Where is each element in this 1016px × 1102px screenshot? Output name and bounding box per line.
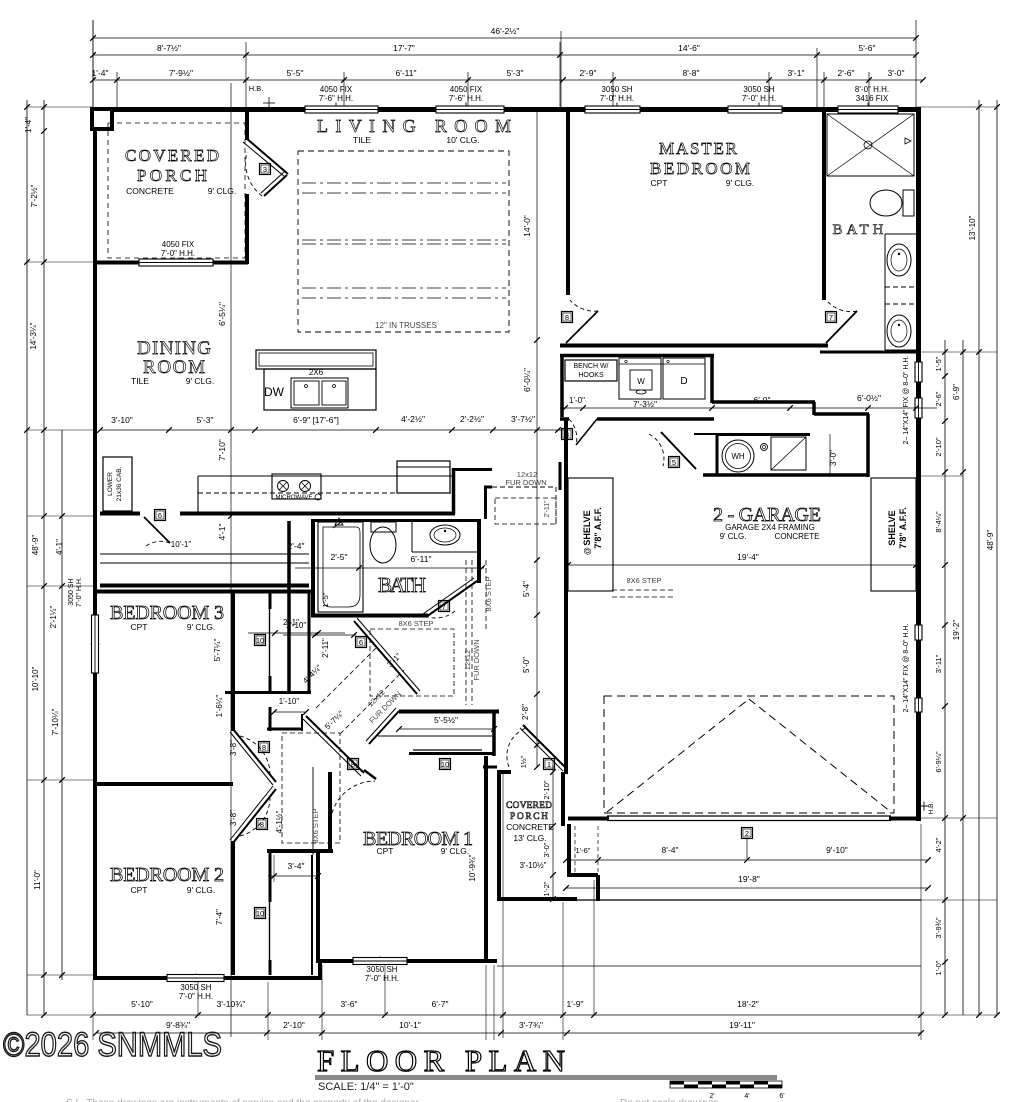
svg-text:3'-6": 3'-6" [341,999,358,1009]
svg-text:7'-0" H.H.: 7'-0" H.H. [365,974,399,983]
svg-text:4'-1": 4'-1" [55,539,64,555]
svg-text:H.B.: H.B. [249,84,264,93]
svg-text:1'-4": 1'-4" [24,117,33,133]
svg-text:21x36 CAB.: 21x36 CAB. [116,466,123,501]
svg-text:CONCRETE: CONCRETE [506,822,554,832]
svg-text:FUR DOWN: FUR DOWN [472,639,481,680]
svg-text:3'-0": 3'-0" [888,68,905,78]
svg-text:1'-9": 1'-9" [567,999,584,1009]
svg-text:14'-0": 14'-0" [522,215,532,237]
svg-text:5'-6": 5'-6" [859,43,876,53]
svg-text:2'-10": 2'-10" [542,780,551,799]
svg-text:8: 8 [565,430,569,439]
svg-text:18'-2": 18'-2" [737,999,759,1009]
svg-text:2'-5": 2'-5" [331,552,348,562]
svg-text:6'-11": 6'-11" [395,68,416,78]
svg-text:19'-11": 19'-11" [729,1020,755,1030]
svg-text:3'-4": 3'-4" [288,861,305,871]
svg-text:2: 2 [745,829,749,838]
svg-text:1'-5": 1'-5" [934,356,943,371]
svg-text:1'-6": 1'-6" [576,846,591,855]
svg-text:4050 FIX: 4050 FIX [450,85,483,94]
svg-text:BEDROOM 3: BEDROOM 3 [110,602,224,624]
svg-text:SHELVE: SHELVE [887,510,897,545]
svg-text:FLOOR PLAN: FLOOR PLAN [317,1043,565,1078]
svg-text:CPT: CPT [131,622,148,632]
svg-text:7'-10¼": 7'-10¼" [51,708,60,735]
svg-text:6: 6 [158,511,162,520]
svg-text:7: 7 [829,313,833,322]
svg-text:9' CLG.: 9' CLG. [208,186,237,196]
svg-text:6'-0½": 6'-0½" [857,393,881,403]
svg-text:8: 8 [260,820,264,829]
svg-text:12" IN TRUSSES: 12" IN TRUSSES [375,321,437,330]
svg-text:3416 FIX: 3416 FIX [856,94,889,103]
svg-text:46'-2½": 46'-2½" [491,26,520,36]
svg-text:8'-7½": 8'-7½" [157,43,181,53]
svg-text:WH: WH [731,452,745,461]
svg-text:3050 SH: 3050 SH [366,965,397,974]
svg-text:19'-8": 19'-8" [738,874,760,884]
svg-text:BEDROOM 2: BEDROOM 2 [110,864,224,886]
svg-text:TILE: TILE [353,135,371,145]
svg-text:10: 10 [256,909,264,918]
svg-text:8: 8 [565,313,569,322]
svg-text:4050 FIX: 4050 FIX [162,240,195,249]
svg-text:3'-11": 3'-11" [934,654,943,673]
svg-text:9' CLG.: 9' CLG. [726,178,755,188]
svg-text:10: 10 [256,636,264,645]
svg-text:@: @ [583,547,592,555]
svg-text:3050 SH: 3050 SH [601,85,632,94]
svg-text:5'-5½": 5'-5½" [434,715,458,725]
svg-text:7'8" A.F.F.: 7'8" A.F.F. [898,507,908,549]
svg-text:10: 10 [441,760,449,769]
svg-text:9' CLG.: 9' CLG. [186,376,215,386]
svg-text:5'-3": 5'-3" [197,415,214,425]
svg-text:LOWER: LOWER [107,472,114,496]
svg-text:FUR DOWN: FUR DOWN [505,478,546,487]
svg-text:ROOM: ROOM [143,357,205,378]
svg-text:3'-0": 3'-0" [542,842,551,857]
svg-text:4'-2": 4'-2" [934,837,943,852]
svg-text:CPT: CPT [377,846,394,856]
svg-text:1: 1 [547,760,551,769]
svg-text:6': 6' [779,1093,784,1100]
svg-text:10'-1": 10'-1" [399,1020,421,1030]
svg-text:3'-7½": 3'-7½" [511,414,535,424]
svg-text:8: 8 [351,760,355,769]
svg-text:13'-10": 13'-10" [968,215,977,240]
svg-text:6'-9": 6'-9" [952,384,961,400]
svg-text:5'-3": 5'-3" [507,68,524,78]
svg-text:4050 FIX: 4050 FIX [320,85,353,94]
svg-text:CONCRETE: CONCRETE [775,532,820,541]
svg-text:3'-10½": 3'-10½" [519,861,546,870]
svg-text:1½": 1½" [520,755,528,768]
svg-text:DINING: DINING [137,338,211,359]
svg-text:14'-3¼": 14'-3¼" [29,322,38,349]
svg-text:6'-9¼": 6'-9¼" [934,751,943,773]
svg-text:6'-5¼": 6'-5¼" [217,302,227,326]
svg-text:10'-9¾": 10'-9¾" [468,854,477,881]
svg-text:2'-6": 2'-6" [838,68,855,78]
svg-text:3'-8": 3'-8" [229,740,238,756]
svg-text:17'-7": 17'-7" [393,43,415,53]
svg-text:2'-10": 2'-10" [934,437,943,456]
svg-text:6'-0¼": 6'-0¼" [522,368,532,392]
svg-text:4'-1½": 4'-1½" [275,811,284,834]
svg-text:3'-10": 3'-10" [111,415,133,425]
svg-text:8'-4¼": 8'-4¼" [934,511,943,533]
svg-text:10'-10": 10'-10" [31,666,40,691]
svg-text:19'-4": 19'-4" [737,552,759,562]
svg-text:7'-4": 7'-4" [215,909,224,925]
svg-text:2'-4": 2'-4" [288,541,305,551]
svg-text:2'-8": 2'-8" [521,704,530,720]
svg-text:3'-9¾": 3'-9¾" [934,917,943,939]
svg-text:CONCRETE: CONCRETE [126,186,174,196]
svg-text:BENCH W/: BENCH W/ [574,363,609,370]
svg-text:BEDROOM: BEDROOM [650,159,750,178]
svg-text:7'-6" H.H.: 7'-6" H.H. [449,94,483,103]
svg-text:5'-0": 5'-0" [522,657,531,673]
svg-text:3050 SH: 3050 SH [68,578,75,605]
svg-text:MASTER: MASTER [659,139,738,158]
svg-text:8'-0" H.H.: 8'-0" H.H. [855,85,889,94]
svg-text:6'-9" [17'-6"]: 6'-9" [17'-6"] [293,415,339,425]
svg-text:D: D [680,376,687,387]
svg-text:2'-10": 2'-10" [283,1020,305,1030]
svg-text:2– 14"X14" FIX @ 8–0" H.H.: 2– 14"X14" FIX @ 8–0" H.H. [903,624,910,713]
svg-text:2'-2½": 2'-2½" [460,414,484,424]
svg-text:MICROWAVE: MICROWAVE [276,495,313,501]
svg-text:7'-9½": 7'-9½" [169,68,193,78]
svg-text:10' CLG.: 10' CLG. [446,135,479,145]
svg-text:7: 7 [442,602,446,611]
svg-text:9' CLG.: 9' CLG. [720,532,747,541]
svg-text:12x12: 12x12 [463,650,472,670]
svg-text:7'-0" H.H.: 7'-0" H.H. [76,577,83,607]
svg-text:1'-0": 1'-0" [934,960,943,975]
svg-text:8X6 STEP: 8X6 STEP [398,619,433,628]
svg-text:7'-3½": 7'-3½" [633,399,657,409]
svg-text:2'-1": 2'-1" [283,618,299,627]
svg-text:©2026 SNMMLS: ©2026 SNMMLS [3,1026,222,1064]
svg-text:7'-0" H.H.: 7'-0" H.H. [600,94,634,103]
svg-text:8X6 STEP: 8X6 STEP [484,576,493,611]
svg-text:7'-6" H.H.: 7'-6" H.H. [319,94,353,103]
svg-text:3'-1": 3'-1" [788,68,805,78]
svg-text:4'-2½": 4'-2½" [401,414,425,424]
svg-text:5'-5": 5'-5" [287,68,304,78]
svg-text:7'8" A.F.F.: 7'8" A.F.F. [593,507,603,549]
svg-text:COVERED: COVERED [506,801,552,811]
svg-text:9' CLG.: 9' CLG. [187,622,216,632]
svg-text:2'-1¼": 2'-1¼" [49,606,58,629]
svg-text:14'-6": 14'-6" [678,43,700,53]
svg-text:2'-11": 2'-11" [321,638,330,658]
svg-text:1'-2": 1'-2" [542,881,551,896]
svg-text:6'-7": 6'-7" [432,999,449,1009]
svg-text:6'-0": 6'-0" [754,395,771,405]
svg-text:3'-7¾": 3'-7¾" [519,1020,543,1030]
svg-text:2– 14"X14" FIX @ 8–0" H.H.: 2– 14"X14" FIX @ 8–0" H.H. [903,356,910,445]
svg-text:6'-11": 6'-11" [410,554,431,564]
svg-text:4': 4' [744,1093,749,1100]
svg-text:8X6 STEP: 8X6 STEP [311,808,320,843]
svg-text:13' CLG.: 13' CLG. [513,833,546,843]
svg-text:3: 3 [263,165,267,174]
svg-text:CPT: CPT [131,885,148,895]
svg-text:7'-0" H.H.: 7'-0" H.H. [161,249,195,258]
svg-text:9' CLG.: 9' CLG. [441,846,470,856]
svg-text:1'-4": 1'-4" [92,68,109,78]
svg-text:2'-11": 2'-11" [544,500,551,518]
svg-text:2'-9": 2'-9" [580,68,597,78]
svg-text:BATH: BATH [378,573,426,597]
svg-text:3'-8": 3'-8" [229,810,238,826]
svg-text:1'-5": 1'-5" [321,592,330,607]
svg-text:SCALE: 1/4" = 1'-0": SCALE: 1/4" = 1'-0" [318,1081,414,1093]
svg-text:HOOKS: HOOKS [578,372,604,379]
svg-text:10'-1": 10'-1" [171,540,192,549]
svg-text:W: W [637,377,645,386]
svg-text:2'-6": 2'-6" [934,391,943,406]
svg-text:DW: DW [264,385,285,399]
svg-text:SHELVE: SHELVE [582,510,592,545]
svg-text:1'-6¼": 1'-6¼" [215,695,224,718]
svg-text:1'-10": 1'-10" [279,697,300,706]
svg-text:48'-9": 48'-9" [986,530,995,551]
svg-text:7'-0" H.H.: 7'-0" H.H. [179,992,213,1001]
svg-text:3050 SH: 3050 SH [743,85,774,94]
svg-text:3050 SH: 3050 SH [180,983,211,992]
svg-text:7'-10": 7'-10" [217,439,227,461]
svg-text:7'-2½": 7'-2½" [30,185,39,208]
svg-text:5'-7¼": 5'-7¼" [213,639,222,662]
svg-text:S.L. These drawings are instru: S.L. These drawings are instruments of s… [66,1098,421,1102]
svg-text:8'-4": 8'-4" [662,845,679,855]
svg-text:8'-8": 8'-8" [683,68,700,78]
svg-text:5'-4": 5'-4" [522,581,531,597]
svg-text:5: 5 [672,458,676,467]
svg-text:Do not scale drawings.: Do not scale drawings. [620,1098,721,1102]
svg-text:8: 8 [262,743,266,752]
svg-text:19'-2": 19'-2" [952,620,961,641]
svg-text:4'-1": 4'-1" [217,524,227,541]
svg-text:H.B.: H.B. [928,801,935,814]
svg-text:GARAGE 2X4 FRAMING: GARAGE 2X4 FRAMING [725,523,815,532]
svg-text:CPT: CPT [651,178,668,188]
svg-text:8X6 STEP: 8X6 STEP [626,576,661,585]
svg-text:7'-0" H.H.: 7'-0" H.H. [742,94,776,103]
svg-text:9'-10": 9'-10" [826,845,848,855]
svg-text:5'-10": 5'-10" [131,999,153,1009]
svg-text:1'-0": 1'-0" [569,396,585,405]
svg-text:9' CLG.: 9' CLG. [187,885,216,895]
svg-text:6: 6 [359,638,363,647]
svg-text:11'-0": 11'-0" [33,870,42,890]
svg-text:TILE: TILE [131,376,149,386]
svg-text:2X6: 2X6 [309,368,324,377]
svg-text:48'-9": 48'-9" [31,535,40,556]
